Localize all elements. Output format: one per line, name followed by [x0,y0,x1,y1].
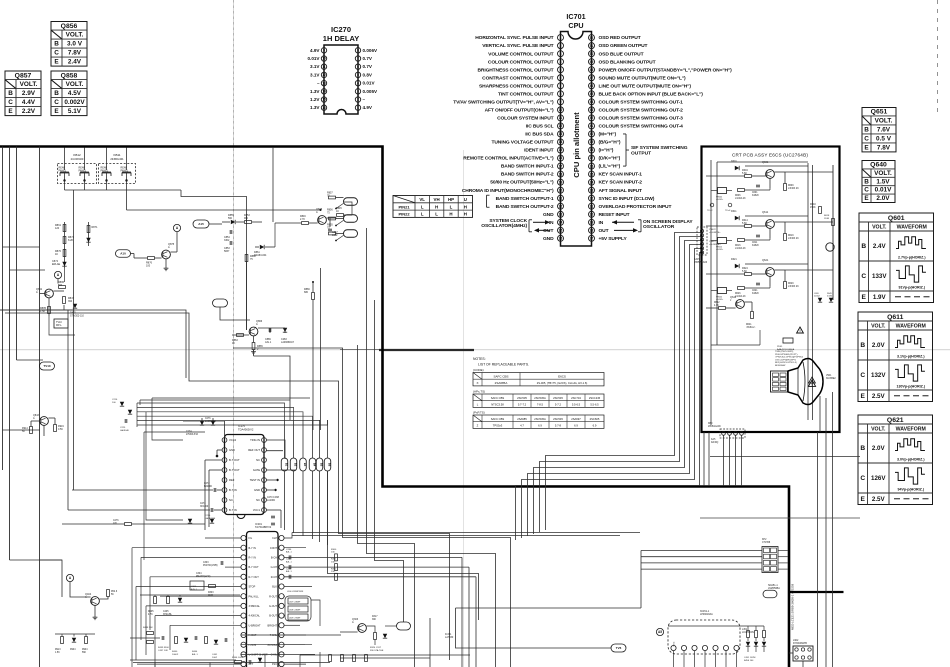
CRT PCB assy box [702,147,840,433]
wire left stub e [3,429,41,431]
CPU pin 43 [589,107,595,113]
svg-text:33: 33 [590,188,594,192]
wire TP mid [220,307,250,320]
svg-text:8: 8 [357,48,359,52]
svg-text:R317: R317 [372,616,378,618]
svg-text:C: C [861,273,866,280]
svg-text:2SC535: 2SC535 [517,396,527,400]
capacitor C889 [268,328,270,332]
svg-text:KEY SCAN INPUT-2: KEY SCAN INPUT-2 [599,180,643,186]
svg-text:BAND SWITCH INPUT-2: BAND SWITCH INPUT-2 [501,172,554,178]
svg-text:13: 13 [559,132,563,136]
IC270 pin 3 [355,89,360,94]
svg-text:0.006V: 0.006V [363,48,378,53]
svg-text:YR612: YR612 [709,241,716,243]
svg-text:2.0V: 2.0V [872,445,886,452]
wire path I [328,471,479,620]
svg-text:GND: GND [254,488,260,492]
svg-text:KB11: KB11 [113,153,120,157]
IC301 pin R14 [279,662,284,667]
svg-text:VOLT.: VOLT. [66,32,84,39]
IC301 pin L8 [241,603,246,608]
svg-text:H: H [464,212,467,217]
bottom mid cluster 1 [147,632,154,635]
wire left long vertical [39,147,41,667]
transistor Q621 [766,268,775,277]
svg-text:Q611: Q611 [887,314,903,321]
svg-text:TPS5x3: TPS5x3 [493,424,503,428]
resistor R886 [59,286,66,289]
wire bottom link 3 [429,618,431,667]
table Q858 [51,71,87,116]
svg-text:REF OUT: REF OUT [248,448,260,452]
CPU pin 18 [558,171,564,177]
svg-text:2.7K: 2.7K [300,218,305,221]
IC301 pin R12 [279,642,284,647]
svg-text:R-OUT: R-OUT [269,595,277,598]
svg-text:11: 11 [322,65,326,69]
CPU pin 3 [558,51,564,57]
wire delay lines out [283,595,286,597]
wire Q866 base [232,334,249,336]
svg-text:CT1558: CT1558 [762,542,771,544]
resistor R618 [832,219,835,226]
resistor R846 [302,222,309,225]
svg-text:R642: R642 [714,302,720,304]
wire left stub c [0,309,60,311]
svg-text:STOP: STOP [249,586,256,589]
resistor R864 [237,334,244,337]
svg-text:CLP: CLP [272,537,277,540]
IC270s pin R2 [262,448,267,453]
wire left stub b [10,269,46,271]
wire jack bus [64,181,66,191]
svg-text:LA09018E: LA09018E [205,517,216,520]
wire stub right of bus [710,456,860,458]
svg-text:GND: GND [229,448,235,452]
svg-text:B: B [861,243,866,250]
svg-text:C303: C303 [203,562,209,564]
svg-text:OUTPUT: OUTPUT [631,151,651,157]
svg-text:C276: C276 [205,418,211,420]
svg-text:TDA4565/V2: TDA4565/V2 [238,427,254,431]
pot VR601 [718,188,727,194]
svg-text:CHS DA: CHS DA [268,644,278,647]
capacitor C286 [288,555,290,559]
resistor R860 [245,255,248,262]
resistor R871 [87,226,90,233]
svg-text:TINT CONTROL OUTPUT: TINT CONTROL OUTPUT [498,91,554,97]
TP oval Q303 [397,622,411,630]
svg-text:3H2L/BL: 3H2L/BL [163,614,173,616]
CPU pin 51 [589,43,595,49]
svg-text:BRIGHTNESS CONTROL OUTPUT: BRIGHTNESS CONTROL OUTPUT [478,67,554,73]
svg-text:0.5 V: 0.5 V [876,136,892,143]
svg-text:R871: R871 [92,226,99,229]
svg-text:0.002V: 0.002V [64,99,85,106]
svg-text:ERA83-004: ERA83-004 [254,254,267,257]
svg-text:A5: A5 [658,630,662,634]
wire IC270 bt out [205,459,222,461]
wire CRT bundle 5 [522,249,704,539]
crease smear [379,349,474,351]
svg-text:E: E [864,145,869,152]
svg-text:2: 2 [357,98,359,102]
circref A1 [54,271,61,278]
transistor Q642 [736,300,745,309]
svg-text:ON SCREEN DISPLAY: ON SCREEN DISPLAY [643,219,693,225]
CPU pin 24 [558,219,564,225]
IC270s pin R4 [262,468,267,473]
svg-text:2: 2 [560,44,562,48]
wire IC270 btin2 [68,509,210,511]
svg-text:E6CS: E6CS [558,375,566,379]
svg-text:<B-DR>: <B-DR> [716,248,724,251]
svg-text:5.6K: 5.6K [742,172,747,175]
svg-text:B-Y IN: B-Y IN [249,547,257,550]
svg-text:560: 560 [228,217,233,220]
svg-text:CONT: CONT [270,547,278,550]
Q404 wires [70,582,91,597]
TP pill R855 [344,230,358,238]
svg-text:AAA4910LE6A5A: AAA4910LE6A5A [777,348,795,351]
wire path B [233,348,511,667]
svg-text:KB0: KB0 [708,423,713,425]
svg-text:KP2: KP2 [762,539,767,541]
svg-text:LA0966DAT: LA0966DAT [281,341,294,344]
parts table 2 [473,394,604,407]
wire IC270 vcc1 [266,509,281,511]
svg-text:PIN21: PIN21 [398,204,410,209]
svg-text:!: ! [811,379,812,383]
svg-text:BAND SWITCH INPUT-1: BAND SWITCH INPUT-1 [501,164,554,170]
svg-text:2.2V: 2.2V [22,108,36,115]
sound parts right [747,631,750,638]
wire IC301 left fan drops [131,548,133,667]
transistor Q843 [40,417,49,426]
svg-text:B: B [860,342,865,349]
middle cluster D855 [231,220,235,224]
svg-text:A15: A15 [198,222,204,226]
svg-text:OSCILLATOR: OSCILLATOR [643,224,675,230]
svg-text:PD61: PD61 [777,346,783,348]
diode D871 [86,238,90,242]
resistor R847 [63,297,66,304]
CPU pin 8 [558,91,564,97]
svg-text:WAVEFORM: WAVEFORM [896,323,926,329]
svg-text:REMOTE CONTROL INPUT(ACTIVE="L: REMOTE CONTROL INPUT(ACTIVE="L") [463,156,554,162]
svg-text:L/330K 2K: L/330K 2K [788,286,799,288]
svg-text:SAFC CBS: SAFC CBS [491,396,505,400]
svg-text:VCC: VCC [674,641,676,646]
wire KB0 drops [723,435,725,486]
CPU pin 29 [589,219,595,225]
svg-text:TWB (PW/1-3/W2),: TWB (PW/1-3/W2), [775,351,794,353]
svg-text:3302: 3302 [224,239,230,242]
IC270 pin 13 [321,80,326,85]
wire RGB vert 0 [461,557,463,667]
IC270s pin L7 [222,498,227,503]
IC301 pin L2 [241,545,246,550]
svg-text:OSD RED OUTPUT: OSD RED OUTPUT [599,35,641,41]
wire jack drop 1 [73,190,75,302]
oval TV right [763,590,777,598]
svg-text:D904: D904 [70,649,76,651]
svg-text:HP: HP [448,197,454,202]
CPU pin 9 [558,99,564,105]
svg-text:23-00X400: 23-00X400 [71,157,84,161]
table PIN21/PIN22 band switch [393,196,473,218]
svg-text:TP-xC: TP-xC [707,210,713,212]
svg-text:SHARPNESS CONTROL OUTPUT: SHARPNESS CONTROL OUTPUT [479,83,554,89]
CRT funnel V901 [788,358,823,404]
IC270 test stub [266,479,276,481]
CPU pin 35 [589,171,595,177]
svg-text:U: U [464,197,467,202]
wire link bottom of left cluster [64,268,66,282]
wire Q875 collector [171,251,178,253]
capacitor C621 [756,282,760,284]
svg-text:E: E [864,195,869,202]
TV oval bottom [611,644,626,652]
svg-text:LA2082: LA2082 [267,499,276,502]
SIF system switching bracket [625,134,627,166]
warning triangle CRT [809,377,816,383]
svg-text:5: 5 [357,73,359,77]
svg-text:IDENT INPUT: IDENT INPUT [524,148,554,154]
CPU pin 12 [558,123,564,129]
svg-text:1.3V: 1.3V [310,105,320,110]
table Q651 [862,108,896,152]
svg-text:21: 21 [559,196,563,200]
svg-text:H: H [435,204,438,209]
svg-text:20: 20 [559,188,563,192]
capacitor C271 [210,508,212,512]
svg-text:U-BRIGHT: U-BRIGHT [249,624,262,627]
svg-text:45: 45 [590,92,594,96]
wire CRT bundle 6 [516,253,704,541]
svg-text:VOLT.: VOLT. [871,323,886,329]
svg-text:NTSC3.58: NTSC3.58 [491,403,504,407]
svg-text:2SA697: 2SA697 [571,417,581,421]
svg-text:COLOUR CONTROL OUTPUT: COLOUR CONTROL OUTPUT [488,59,554,65]
IC270s pin L6 [222,488,227,493]
svg-text:32: 32 [590,196,594,200]
IC270 pin 6 [355,64,360,69]
wire R860 drop [246,262,248,330]
svg-text:C: C [860,475,865,482]
svg-text:Q601: Q601 [888,215,905,222]
TP oval mid [213,299,228,307]
svg-text:P04700(1H/B): P04700(1H/B) [203,565,218,567]
svg-text:H-OUT: H-OUT [249,634,257,637]
CPU pin 41 [589,123,595,129]
svg-text:R300: R300 [331,549,337,551]
IC301 pin L14 [241,662,246,667]
Q642 parts [719,307,726,310]
svg-text:19: 19 [559,180,563,184]
IC270 pin 7 [355,56,360,61]
svg-text:310XBE2: 310XBE2 [826,378,836,380]
wire left edge 3 [16,147,18,361]
resistor R866 [312,293,315,300]
wire L902 [802,661,804,667]
svg-text:B-Y OUT: B-Y OUT [249,566,260,569]
svg-text:POWER ON/OFF OUTPUT(STANDBY="L: POWER ON/OFF OUTPUT(STANDBY="L","POWER O… [599,67,733,73]
svg-text:133V: 133V [872,273,887,280]
CPU pin 45 [589,91,595,97]
wire sound top [668,625,764,627]
svg-text:31: 31 [590,204,594,208]
capacitor C854 [229,230,231,234]
svg-text:VH: VH [434,197,440,202]
svg-text:2S-005, (TB=75, (G2CS), CH-HG,: 2S-005, (TB=75, (G2CS), CH-HG, HV-1.6) [537,381,588,385]
CPU pin 52 [589,35,595,41]
svg-text:C271: C271 [200,503,206,505]
svg-text:R-Y OUT: R-Y OUT [249,576,260,579]
svg-text:11: 11 [559,116,563,120]
svg-text:100Z: 100Z [332,234,338,237]
CPU pin 31 [589,203,595,209]
wire RGB vert 2 [475,577,477,667]
svg-text:7: 7 [560,84,562,88]
svg-text:E: E [8,108,13,115]
svg-text:2SA685: 2SA685 [517,417,527,421]
svg-text:1K: 1K [232,342,235,345]
IC270 pin 8 [355,48,360,53]
svg-text:(PxP,TS): (PxP,TS) [473,411,485,415]
CPU pin 20 [558,187,564,193]
svg-text:B4: B4 [312,463,316,467]
wire jack feed stubs [64,148,66,171]
svg-text:TRIG IN: TRIG IN [250,438,260,442]
svg-text:3.58KCAL: 3.58KCAL [249,605,261,608]
svg-text:MP-L: MP-L [56,324,62,327]
svg-text:5.7-7.2: 5.7-7.2 [518,403,527,407]
svg-text:B: B [864,127,869,134]
svg-text:KA5: KA5 [711,438,716,441]
svg-text:COLOUR SYSTEM SWITCHING OUT-3: COLOUR SYSTEM SWITCHING OUT-3 [599,116,684,122]
table Q621 [858,415,933,505]
capacitor C853 [229,241,231,245]
svg-text:–: – [317,81,320,86]
IC301 pin R10 [279,623,284,628]
bottom-left transistor Q404 [91,597,100,606]
svg-text:Q621: Q621 [887,417,904,424]
svg-text:VOLUME CONTROL OUTPUT: VOLUME CONTROL OUTPUT [488,51,553,57]
svg-text:12: 12 [322,73,326,77]
svg-text:COLOUR SYSTEM SWITCHING OUT-4: COLOUR SYSTEM SWITCHING OUT-4 [599,124,684,130]
wire IC270 btin1 [72,489,213,491]
wire Q866 emitter [253,336,255,343]
stage wires Q621 [706,273,745,275]
svg-text:(CODE): (CODE) [473,368,484,372]
svg-text:SYSTEM CLOCK: SYSTEM CLOCK [489,218,527,224]
svg-text:1.3V: 1.3V [310,89,320,94]
svg-text:0.68Z: 0.68Z [827,296,833,298]
CPU pin 22 [558,203,564,209]
wire RGB vert 1 [468,567,470,667]
svg-text:48: 48 [590,68,594,72]
svg-text:37: 37 [590,156,594,160]
IC270s pin L4 [222,468,227,473]
svg-text:NC: NC [229,498,233,502]
svg-text:3: 3 [357,89,359,93]
svg-text:26: 26 [559,237,563,241]
svg-text:G-OUT: G-OUT [269,605,278,608]
table Q857 [5,71,41,116]
svg-text:24: 24 [559,220,563,224]
svg-text:(D/K="H"): (D/K="H") [599,156,621,162]
svg-text:BF305MW: BF305MW [775,365,786,367]
svg-text:18: 18 [559,172,563,176]
svg-text:+5V SUPPLY: +5V SUPPLY [599,236,628,242]
resistor R845 [337,214,344,217]
svg-text:100: 100 [146,265,151,268]
svg-text:L/100A 2K: L/100A 2K [735,247,746,250]
IC301 pin L12 [241,642,246,647]
CPU pin 26 [558,235,564,241]
resistor R624 [745,273,752,276]
resistor R301 [335,564,338,571]
svg-text:29: 29 [590,220,594,224]
svg-text:6.9: 6.9 [538,424,542,428]
svg-text:C601: C601 [752,192,758,194]
wire IC270 gnd pin [217,449,222,451]
svg-text:46: 46 [590,84,594,88]
resistor R616 [738,239,745,242]
svg-text:COLOUR SYSTEM SWITCHING OUT-1: COLOUR SYSTEM SWITCHING OUT-1 [599,99,684,105]
svg-text:36: 36 [590,164,594,168]
svg-text:B6: B6 [327,463,331,467]
svg-text:DA/DQ: DA/DQ [711,441,718,444]
TV oval left [40,362,55,370]
left parts group2 [190,581,204,590]
warning triangle 2 [808,380,815,386]
table Q611 [858,312,933,402]
svg-text:C451 102M: C451 102M [744,657,755,659]
svg-text:C-KIL: C-KIL [271,654,278,657]
svg-text:28: 28 [590,229,594,233]
svg-text:130Vp-p(HORIZ.): 130Vp-p(HORIZ.) [896,385,925,389]
svg-text:C: C [864,187,869,194]
capacitor C611 [756,234,760,236]
svg-text:B-CH: B-CH [271,557,277,560]
svg-text:R444: R444 [192,651,198,653]
CPU pin 5 [558,67,564,73]
CPU pin 39 [589,139,595,145]
svg-text:2200Z: 2200Z [814,296,820,298]
svg-text:3.1V: 3.1V [310,64,320,69]
svg-text:NC: NC [256,498,260,502]
diode D642 [829,298,833,302]
wire path E [358,345,415,667]
svg-text:5.6K: 5.6K [742,270,747,273]
svg-text:4.4V: 4.4V [22,99,36,106]
wire pill drops up [284,420,286,458]
wire lower box links [711,344,760,346]
IC270 pin 2 [355,97,360,102]
wire CRT bundle 2 [540,237,704,533]
svg-text:30: 30 [590,212,594,216]
CPU pin 2 [558,43,564,49]
svg-text:A3L.1: A3L.1 [286,560,292,563]
svg-text:7.8V: 7.8V [877,145,891,152]
table Q856 [51,22,87,67]
wire bottom edge drops [154,663,156,667]
wire bottom mid [130,659,236,661]
svg-text:E: E [54,108,59,115]
